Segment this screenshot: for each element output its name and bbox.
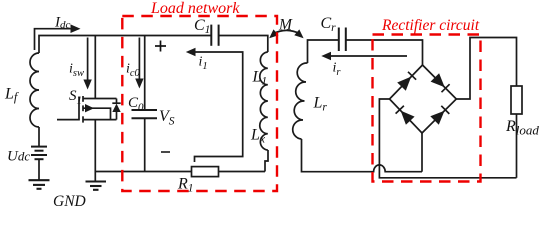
diode body of S1	[112, 99, 120, 120]
wire Lx bottom jog	[265, 150, 268, 172]
node Idc arrow annotation	[35, 24, 81, 50]
battery Udc	[31, 147, 47, 160]
wire C1 right to L1 top corner	[219, 36, 268, 53]
inductor L1 and Lx	[260, 52, 268, 150]
rectifier dashed box	[373, 35, 481, 182]
ground (source)	[86, 182, 107, 190]
diode D4 bottom-right edge	[430, 106, 449, 125]
ground (battery)	[29, 180, 50, 189]
node minus sign	[161, 151, 170, 153]
svg-text:Load network: Load network	[150, 0, 240, 17]
diode D1 top-left edge	[397, 72, 416, 91]
diode bridge frame	[390, 65, 457, 133]
svg-text:VS: VS	[159, 108, 175, 128]
node ic0 arrow annotation	[135, 38, 143, 89]
wire source to ground bus	[94, 120, 96, 181]
resistor Rload	[511, 86, 522, 114]
svg-text:Lx: Lx	[250, 127, 266, 146]
wire drain riser	[94, 36, 96, 99]
svg-text:Lr: Lr	[313, 95, 328, 114]
label plus	[155, 41, 166, 52]
capacitor Cr	[339, 28, 346, 52]
diode D2 top-right edge	[431, 73, 450, 92]
wire DC minus: left vertex down and right	[379, 99, 516, 178]
wire bridge bottom riser	[421, 133, 423, 172]
svg-text:L1: L1	[252, 69, 268, 88]
svg-text:i1: i1	[199, 55, 208, 73]
wire top bus left section	[39, 36, 211, 54]
wire battery to ground	[38, 159, 40, 180]
diode body triangle of S1	[112, 104, 120, 112]
svg-text:isw: isw	[69, 62, 84, 80]
capacitor C0	[132, 110, 158, 118]
wire DC plus: right vertex up over to Rload	[456, 38, 516, 100]
capacitor C1	[211, 25, 218, 46]
svg-text:ic0: ic0	[126, 62, 141, 80]
resistor R1	[192, 167, 219, 177]
wire right loop top	[308, 40, 339, 63]
svg-text:C1: C1	[194, 17, 210, 36]
svg-text:ir: ir	[333, 61, 342, 79]
svg-text:Rectifier circuit: Rectifier circuit	[381, 17, 480, 34]
wire R1 to Lx	[219, 171, 266, 173]
wire C0 branch	[144, 36, 146, 111]
svg-text:Udc: Udc	[7, 149, 30, 165]
wire Rload bottom	[516, 114, 518, 178]
svg-text:C0: C0	[128, 95, 144, 114]
svg-text:S1: S1	[69, 88, 82, 107]
node i1 arrow annotation	[186, 48, 196, 56]
inductor Lr	[293, 63, 308, 139]
transistor Q1 (MOSFET S1)	[57, 96, 117, 123]
wire Lr bottom bus with hop	[302, 139, 423, 172]
svg-text:M: M	[278, 17, 293, 34]
wire bottom bus	[95, 171, 191, 173]
wire Lf bottom to battery	[38, 127, 40, 146]
node isw arrow annotation	[83, 38, 91, 90]
load network dashed box	[122, 16, 277, 191]
svg-text:Lf: Lf	[4, 86, 19, 105]
svg-text:GND: GND	[53, 193, 86, 210]
wire VS port loop with i1	[195, 52, 243, 162]
svg-text:Rload: Rload	[505, 118, 539, 138]
svg-text:Idc: Idc	[54, 15, 71, 32]
svg-text:R1: R1	[177, 176, 194, 195]
inductor Lf	[30, 53, 39, 127]
transistor S1 channel arrow	[85, 104, 94, 112]
diode D3 bottom-left edge	[396, 106, 415, 125]
node ir arrow annotation	[321, 52, 407, 60]
svg-text:Cr: Cr	[321, 15, 337, 34]
node M coupling arrow	[269, 29, 303, 38]
